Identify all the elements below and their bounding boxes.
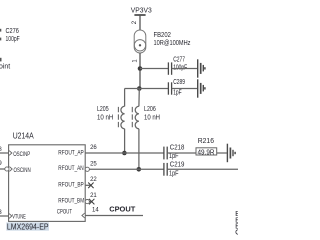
svg-text:VTUNE: VTUNE [12, 214, 26, 220]
wire C289 to ground [172, 88, 198, 90]
svg-text:point: point [0, 62, 11, 71]
ferrite bead FB202 [134, 30, 190, 53]
pin 3 VTUNE [0, 210, 26, 220]
wire junction to C289 [139, 88, 168, 90]
wire L205 bottom to RFOUT_AP net [124, 129, 126, 153]
wire C219 to right edge [167, 168, 238, 170]
svg-text:L205: L205 [97, 104, 109, 113]
svg-text:8: 8 [0, 147, 2, 153]
svg-text:L206: L206 [144, 104, 156, 113]
pin 14 CPOUT [57, 208, 143, 218]
svg-text:CPOUT: CPOUT [109, 205, 135, 214]
ground (C289) [198, 79, 205, 97]
svg-text:10R@100MHz: 10R@100MHz [154, 38, 191, 47]
svg-text:OSCINP: OSCINP [13, 152, 30, 158]
capacitor C276 (cut off at left edge) [0, 26, 20, 43]
node test point label (cut off at left edge) [0, 58, 11, 71]
svg-text:RFOUT_AP: RFOUT_AP [58, 150, 83, 156]
svg-text:22: 22 [90, 177, 97, 183]
wire junction down to L206 [138, 89, 140, 107]
pin 8 OSCINP [0, 147, 30, 158]
svg-text:C: C [235, 228, 238, 237]
svg-text:RFOUT_AN: RFOUT_AN [58, 166, 83, 172]
pin 25 RFOUT_AN [58, 162, 164, 172]
svg-text:RFOUT_BM: RFOUT_BM [58, 199, 84, 205]
text fragments cut at right edge [235, 209, 241, 237]
svg-text:100pF: 100pF [6, 34, 20, 43]
svg-text:VP3V3: VP3V3 [131, 6, 152, 15]
capacitor C219 [164, 160, 185, 178]
svg-text:3: 3 [0, 210, 2, 216]
power VP3V3 [131, 6, 152, 30]
resistor R216 [196, 136, 217, 156]
wire FB202 bottom to junctions [139, 53, 141, 89]
svg-text:21: 21 [90, 193, 97, 199]
svg-text:LMX2694-EP: LMX2694-EP [7, 223, 49, 232]
inductor L206 [132, 104, 160, 129]
pin 21 RFOUT_BM (no connect) [58, 193, 97, 205]
ground (C277) [198, 59, 205, 77]
part number LMX2694-EP (highlighted) [6, 222, 49, 231]
svg-text:2: 2 [132, 20, 138, 24]
svg-text:14: 14 [92, 208, 99, 214]
wire C277 to ground [172, 68, 198, 70]
inductor L205 [97, 104, 125, 129]
svg-text:100pF: 100pF [173, 62, 187, 71]
svg-text:9: 9 [0, 161, 2, 167]
svg-text:R216: R216 [198, 136, 214, 145]
pin 22 RFOUT_BP (no connect) [58, 177, 97, 189]
wire L206 bottom to RFOUT_AN net [138, 129, 140, 170]
node junction L206 / wire2 [137, 167, 142, 172]
svg-text:26: 26 [90, 145, 97, 151]
svg-text:RFOUT_BP: RFOUT_BP [58, 183, 83, 189]
wire junction left then down to L205 [125, 88, 140, 90]
wire junction to C277 [140, 68, 168, 70]
capacitor C218 [164, 143, 185, 160]
node junction at C289 / inductor tap [137, 86, 142, 91]
svg-text:10 nH: 10 nH [144, 113, 160, 122]
svg-text:25: 25 [90, 162, 97, 168]
ground (R216) [227, 144, 235, 163]
svg-text:49.9R: 49.9R [198, 147, 215, 156]
IC U214A box [9, 132, 86, 222]
svg-text:C219: C219 [170, 160, 185, 169]
svg-text:OSCINN: OSCINN [14, 168, 31, 174]
node junction L205 / wire1 [122, 151, 127, 156]
svg-text:C289: C289 [173, 77, 185, 86]
wire R216 to ground [217, 152, 227, 154]
wire C218 to R216 [167, 152, 196, 154]
capacitor C289 [168, 77, 185, 96]
svg-text:10 nH: 10 nH [97, 113, 113, 122]
pin 9 OSCINN [0, 161, 31, 174]
node junction at C277 tap [138, 66, 143, 71]
svg-text:1pF: 1pF [169, 169, 179, 178]
pin 26 RFOUT_AP [58, 145, 164, 156]
svg-text:1: 1 [132, 59, 138, 63]
svg-text:CPOUT: CPOUT [57, 210, 72, 216]
svg-text:U214A: U214A [13, 132, 35, 141]
capacitor C277 [168, 55, 187, 75]
